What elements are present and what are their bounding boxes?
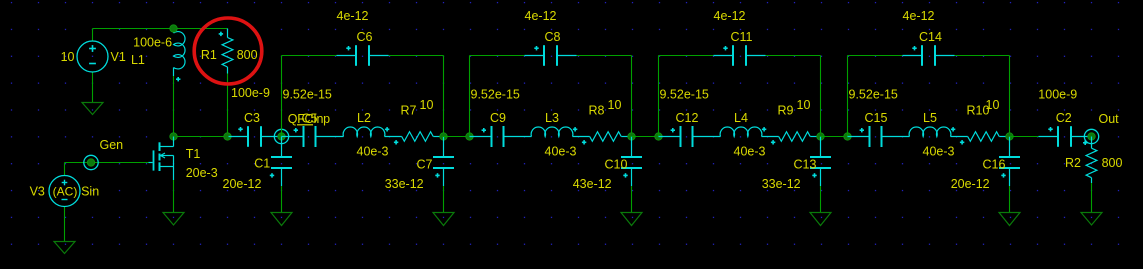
resistor R7 xyxy=(401,98,444,141)
wire xyxy=(1010,136,1039,138)
svg-text:9.52e-15: 9.52e-15 xyxy=(283,88,332,102)
ground xyxy=(82,103,103,115)
svg-text:10: 10 xyxy=(61,50,75,64)
node (junction at R1 bottom) xyxy=(224,133,231,140)
svg-text:Gen: Gen xyxy=(100,138,124,152)
node (junction at T1 drain) xyxy=(170,133,177,140)
svg-text:4e-12: 4e-12 xyxy=(903,9,935,23)
resistor R10 xyxy=(967,98,1010,141)
svg-text:Sin: Sin xyxy=(81,185,99,199)
svg-text:R2: R2 xyxy=(1065,156,1081,170)
ground xyxy=(999,213,1020,226)
svg-text:T1: T1 xyxy=(186,147,201,161)
wire xyxy=(469,56,471,137)
capacitor C9 xyxy=(470,88,532,148)
wire xyxy=(174,136,230,138)
resistor R1 xyxy=(201,29,258,74)
node (junction stage input x=470) xyxy=(466,133,473,140)
wire xyxy=(281,56,283,137)
svg-text:10: 10 xyxy=(420,98,434,112)
svg-text:Out: Out xyxy=(1099,112,1120,126)
svg-text:C9: C9 xyxy=(490,111,506,125)
resistor R9 xyxy=(778,98,821,141)
wire xyxy=(281,186,283,213)
svg-text:L1: L1 xyxy=(131,53,145,67)
wire xyxy=(443,56,445,137)
capacitor C13 xyxy=(762,137,831,192)
capacitor C6 xyxy=(337,9,389,66)
svg-text:43e-12: 43e-12 xyxy=(573,177,612,191)
svg-text:4e-12: 4e-12 xyxy=(525,9,557,23)
inductor L1 xyxy=(131,29,185,82)
wire xyxy=(766,55,821,57)
capacitor C11 xyxy=(714,9,766,66)
resistor R8 xyxy=(589,98,632,141)
svg-text:C5: C5 xyxy=(302,112,318,126)
svg-text:C15: C15 xyxy=(865,111,888,125)
svg-text:C13: C13 xyxy=(794,158,817,172)
svg-text:40e-3: 40e-3 xyxy=(357,145,389,159)
svg-text:10: 10 xyxy=(797,98,811,112)
svg-text:C1: C1 xyxy=(254,157,270,171)
svg-text:R9: R9 xyxy=(778,104,794,118)
ground xyxy=(621,213,642,226)
svg-text:33e-12: 33e-12 xyxy=(762,177,801,191)
wire xyxy=(821,136,848,138)
wire xyxy=(65,162,149,164)
svg-text:20e-12: 20e-12 xyxy=(223,177,262,191)
wire xyxy=(92,29,94,42)
wire xyxy=(1091,183,1093,213)
node (junction stage input x=658) xyxy=(655,133,662,140)
node (junction stage output x=820) xyxy=(817,133,824,140)
wire xyxy=(93,28,228,30)
capacitor C3 xyxy=(229,86,282,147)
node (junction stage output x=1010) xyxy=(1006,133,1013,140)
svg-text:C14: C14 xyxy=(919,30,942,44)
svg-text:L4: L4 xyxy=(734,111,748,125)
svg-text:C2: C2 xyxy=(1056,111,1072,125)
svg-text:V1: V1 xyxy=(111,50,126,64)
wire xyxy=(1009,56,1011,137)
svg-text:10: 10 xyxy=(608,98,622,112)
node QFCInp xyxy=(274,112,330,144)
svg-text:40e-3: 40e-3 xyxy=(734,145,766,159)
wire xyxy=(173,76,175,137)
wire xyxy=(92,72,94,103)
svg-text:100e-9: 100e-9 xyxy=(231,86,270,100)
wire xyxy=(64,163,66,176)
capacitor C12 xyxy=(659,88,721,148)
svg-text:9.52e-15: 9.52e-15 xyxy=(849,88,898,102)
capacitor C14 xyxy=(903,9,955,66)
svg-text:L2: L2 xyxy=(357,111,371,125)
svg-text:C7: C7 xyxy=(417,158,433,172)
wire xyxy=(632,136,659,138)
voltage source V1 xyxy=(61,41,126,72)
svg-text:20e-12: 20e-12 xyxy=(951,177,990,191)
wire xyxy=(1009,186,1011,213)
svg-text:L3: L3 xyxy=(545,111,559,125)
wire xyxy=(820,186,822,213)
svg-text:C6: C6 xyxy=(357,30,373,44)
svg-text:800: 800 xyxy=(237,48,258,62)
resistor R2 xyxy=(1065,137,1122,184)
wire xyxy=(443,186,445,213)
svg-text:C3: C3 xyxy=(244,111,260,125)
node (junction at L1 top) xyxy=(170,25,177,32)
ground xyxy=(271,213,292,226)
wire xyxy=(847,56,849,137)
svg-text:C10: C10 xyxy=(605,158,628,172)
wire xyxy=(173,180,175,213)
node Out xyxy=(1084,112,1119,144)
wire xyxy=(577,55,632,57)
wire xyxy=(955,55,1010,57)
svg-text:33e-12: 33e-12 xyxy=(385,177,424,191)
wire xyxy=(227,74,229,137)
svg-text:40e-3: 40e-3 xyxy=(923,145,955,159)
wire xyxy=(631,56,633,137)
svg-text:C11: C11 xyxy=(730,30,752,44)
svg-text:800: 800 xyxy=(1102,156,1123,170)
node Gen xyxy=(84,138,123,170)
wire xyxy=(848,55,903,57)
wire xyxy=(64,207,66,242)
ground xyxy=(54,242,75,254)
ground xyxy=(433,213,454,226)
svg-text:(AC): (AC) xyxy=(53,185,78,199)
wire xyxy=(443,136,470,138)
svg-text:9.52e-15: 9.52e-15 xyxy=(471,88,520,102)
node (junction stage output x=632) xyxy=(628,133,635,140)
svg-text:R1: R1 xyxy=(201,48,217,62)
capacitor C7 xyxy=(385,137,454,192)
svg-text:4e-12: 4e-12 xyxy=(714,9,746,23)
svg-text:4e-12: 4e-12 xyxy=(337,9,369,23)
svg-text:R7: R7 xyxy=(401,104,417,118)
capacitor C16 xyxy=(951,137,1020,192)
capacitor C15 xyxy=(848,88,910,148)
ground xyxy=(163,213,184,226)
svg-text:V3: V3 xyxy=(30,185,45,199)
transistor T1 (MOSFET) xyxy=(149,137,218,181)
wire xyxy=(631,186,633,213)
inductor L2 xyxy=(343,111,402,159)
ground xyxy=(1081,213,1102,226)
svg-text:100e-6: 100e-6 xyxy=(133,36,172,50)
node (junction stage input x=848) xyxy=(844,133,851,140)
inductor L5 xyxy=(909,111,968,159)
wire xyxy=(470,55,525,57)
node (junction stage output x=444) xyxy=(440,133,447,140)
wire xyxy=(820,56,822,137)
inductor L4 xyxy=(720,111,779,159)
inductor L3 xyxy=(531,111,590,159)
svg-text:R8: R8 xyxy=(589,104,605,118)
wire xyxy=(282,55,337,57)
ground xyxy=(810,213,831,226)
capacitor C2 xyxy=(1038,88,1091,147)
svg-text:20e-3: 20e-3 xyxy=(186,166,218,180)
svg-text:C16: C16 xyxy=(983,158,1006,172)
svg-text:L5: L5 xyxy=(923,111,937,125)
wire xyxy=(658,56,660,137)
capacitor C10 xyxy=(573,137,642,192)
svg-text:C12: C12 xyxy=(676,111,699,125)
wire xyxy=(659,55,714,57)
svg-text:10: 10 xyxy=(986,98,1000,112)
annotation red circle around R1 xyxy=(194,18,262,84)
wire xyxy=(389,55,444,57)
capacitor C8 xyxy=(525,9,577,66)
svg-text:9.52e-15: 9.52e-15 xyxy=(660,88,709,102)
svg-text:40e-3: 40e-3 xyxy=(545,145,577,159)
svg-text:100e-9: 100e-9 xyxy=(1038,88,1077,102)
svg-text:C8: C8 xyxy=(545,30,561,44)
capacitor C5 xyxy=(282,88,344,148)
capacitor C1 xyxy=(223,137,293,192)
voltage source V3 (AC) xyxy=(30,176,100,207)
